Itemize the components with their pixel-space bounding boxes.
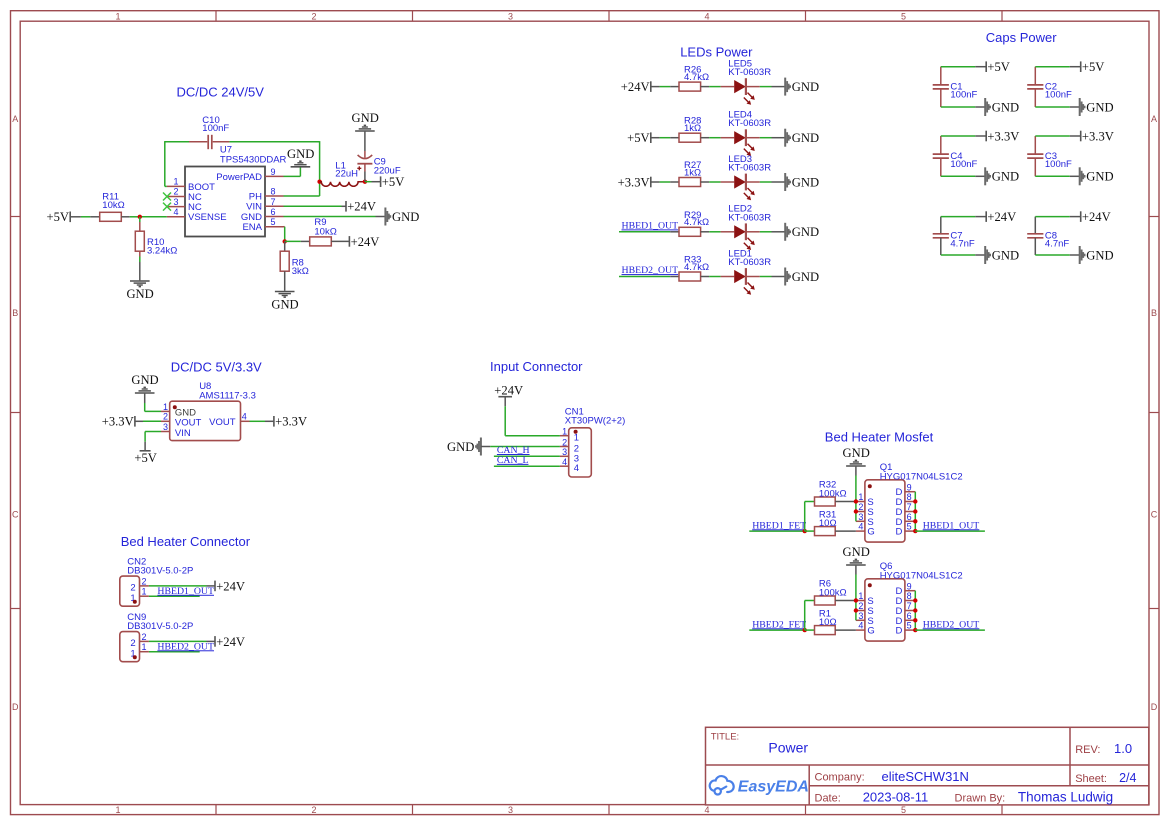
svg-text:C: C [1151, 510, 1158, 520]
no-connect pin 2 [163, 193, 171, 201]
wire CAN_L to CN1 pin 4 [494, 465, 560, 467]
inductor L1 22uH [320, 160, 365, 186]
power +3.3V for LED3 [618, 175, 651, 189]
LED LED2 KT-0603R [721, 204, 772, 250]
wire C4 to ground [941, 175, 985, 177]
svg-text:VSENSE: VSENSE [188, 212, 227, 223]
svg-text:100kΩ: 100kΩ [819, 587, 847, 598]
wire VIN pin 3 to +5V [145, 432, 161, 451]
svg-text:Sheet:: Sheet: [1075, 773, 1107, 785]
junction R10 top [138, 215, 142, 219]
net label HBED1_OUT [923, 520, 980, 531]
svg-text:2: 2 [858, 502, 863, 512]
junction L1 right [363, 180, 367, 184]
LED LED4 KT-0603R [721, 110, 772, 156]
ground flag for LED4 [785, 129, 819, 147]
power +24V at R9 [349, 235, 379, 249]
net label CAN_H [497, 445, 530, 456]
svg-text:5: 5 [901, 805, 906, 815]
svg-text:+24V: +24V [494, 384, 523, 398]
svg-text:Date:: Date: [815, 793, 841, 805]
svg-text:3: 3 [508, 11, 513, 21]
svg-text:GND: GND [792, 131, 819, 145]
svg-text:TPS5430DDAR: TPS5430DDAR [220, 155, 287, 166]
svg-text:3: 3 [173, 197, 178, 207]
svg-text:4: 4 [858, 621, 863, 631]
ground flag at C7 [985, 246, 1019, 264]
svg-text:eliteSCHW31N: eliteSCHW31N [882, 769, 969, 784]
power +5V at C1 [986, 60, 1010, 74]
resistor R28 1kΩ [679, 116, 721, 143]
svg-text:4.7nF: 4.7nF [1045, 239, 1069, 250]
svg-text:1: 1 [142, 642, 147, 652]
capacitor C10 [189, 115, 229, 149]
svg-text:GND: GND [447, 440, 474, 454]
svg-text:Input Connector: Input Connector [490, 359, 583, 374]
resistor R31 10 [805, 509, 856, 535]
svg-text:3.24kΩ: 3.24kΩ [147, 246, 177, 257]
svg-text:3kΩ: 3kΩ [292, 266, 309, 277]
svg-text:100nF: 100nF [950, 159, 977, 170]
svg-text:Bed Heater Connector: Bed Heater Connector [121, 534, 251, 549]
ground below R8 [271, 292, 298, 312]
svg-text:GND: GND [1086, 248, 1113, 262]
svg-text:4.7kΩ: 4.7kΩ [684, 262, 709, 273]
svg-text:5: 5 [907, 522, 912, 532]
ground flag at C3 [1080, 167, 1114, 185]
svg-text:Thomas Ludwig: Thomas Ludwig [1018, 790, 1113, 805]
svg-text:1: 1 [562, 427, 567, 437]
svg-text:8: 8 [907, 492, 912, 502]
svg-text:1: 1 [574, 433, 579, 444]
svg-text:4.7kΩ: 4.7kΩ [684, 72, 709, 83]
svg-text:GND: GND [992, 100, 1019, 114]
svg-text:2: 2 [562, 437, 567, 447]
net label HBED1_OUT [157, 586, 214, 597]
capacitor C9 220uF [357, 132, 401, 182]
svg-text:+24V: +24V [216, 635, 245, 649]
svg-text:GND: GND [352, 111, 379, 125]
wire C7 to +24V [941, 216, 986, 218]
svg-text:1: 1 [142, 587, 147, 597]
svg-text:Bed Heater Mosfet: Bed Heater Mosfet [825, 429, 934, 444]
svg-text:KT-0603R: KT-0603R [728, 67, 771, 78]
wire +24V to R26 [651, 86, 679, 88]
svg-text:D: D [12, 702, 19, 712]
svg-text:1: 1 [163, 402, 168, 412]
svg-text:1: 1 [858, 492, 863, 502]
net label HBED2_OUT [157, 641, 214, 652]
wire C2 to ground [1035, 106, 1079, 108]
svg-text:HBED2_FET: HBED2_FET [752, 619, 806, 630]
svg-text:100nF: 100nF [1045, 159, 1072, 170]
wire LED2 to ground [760, 231, 785, 233]
svg-text:B: B [1151, 308, 1157, 318]
wire CN9 pin 1 net HBED2_OUT [149, 651, 200, 653]
svg-text:6: 6 [907, 512, 912, 522]
resistor R27 1kΩ [679, 160, 721, 187]
wire +5V to R28 [651, 137, 679, 139]
svg-text:TITLE:: TITLE: [711, 732, 740, 743]
svg-text:+24V: +24V [347, 200, 376, 214]
wire HBED1_FET [749, 530, 804, 532]
svg-text:GND: GND [792, 80, 819, 94]
svg-text:4: 4 [704, 11, 709, 21]
power +5V input left [47, 210, 71, 224]
capacitor C7 4.7nF [933, 217, 975, 255]
svg-text:GND: GND [287, 147, 314, 161]
power +24V at C7 [986, 210, 1016, 224]
svg-text:10kΩ: 10kΩ [102, 200, 124, 211]
svg-text:+24V: +24V [351, 235, 380, 249]
svg-text:Drawn By:: Drawn By: [955, 793, 1006, 805]
svg-text:+5V: +5V [1082, 60, 1105, 74]
svg-text:2: 2 [311, 805, 316, 815]
svg-text:B: B [12, 308, 18, 318]
svg-text:4: 4 [704, 805, 709, 815]
net label HBED2_FET [752, 619, 806, 630]
svg-text:2: 2 [311, 11, 316, 21]
svg-text:7: 7 [907, 601, 912, 611]
junction HBED1_FET node [803, 529, 807, 533]
svg-text:G: G [867, 527, 874, 538]
power +5V for LED4 [627, 131, 651, 145]
ground flag for LED2 [785, 223, 819, 241]
svg-text:5: 5 [271, 217, 276, 227]
svg-text:9: 9 [907, 482, 912, 492]
svg-text:+3.3V: +3.3V [987, 129, 1019, 143]
svg-text:GND: GND [126, 287, 153, 301]
svg-text:DC/DC 5V/3.3V: DC/DC 5V/3.3V [171, 360, 262, 375]
svg-text:6: 6 [271, 207, 276, 217]
wire HBED2_OUT [915, 629, 985, 631]
svg-text:100nF: 100nF [950, 90, 977, 101]
junction drain Q6 y600 [913, 598, 917, 602]
svg-text:Power: Power [768, 740, 808, 756]
junction source Q1 pin1 [854, 499, 858, 503]
wire VIN to +24V [284, 205, 346, 207]
svg-text:9: 9 [271, 167, 276, 177]
junction drain Q6 y620 [913, 618, 917, 622]
wire C2 to +5V [1035, 66, 1080, 68]
svg-text:8: 8 [271, 187, 276, 197]
power +3.3V at C4 [986, 129, 1019, 143]
svg-text:+5V: +5V [627, 131, 650, 145]
ground flag for LED5 [785, 78, 819, 96]
LED LED3 KT-0603R [721, 154, 772, 200]
svg-text:C: C [12, 510, 19, 520]
svg-text:GND: GND [792, 225, 819, 239]
junction drain Q1 y511 [913, 509, 917, 513]
ground flag at C4 [985, 167, 1019, 185]
junction drain Q6 y610 [913, 608, 917, 612]
wire C3 to +3.3V [1035, 135, 1080, 137]
svg-text:10kΩ: 10kΩ [314, 226, 336, 237]
capacitor C3 100nF [1027, 136, 1072, 176]
ground above U8 [131, 373, 158, 393]
LED LED5 KT-0603R [721, 59, 772, 105]
svg-text:6: 6 [907, 611, 912, 621]
svg-text:1: 1 [115, 11, 120, 21]
svg-text:3: 3 [163, 422, 168, 432]
ground flag at pin 6 [385, 208, 419, 226]
svg-text:5: 5 [901, 11, 906, 21]
resistor R11 10k [100, 192, 140, 222]
resistor R1 10 [805, 608, 856, 634]
wire GND pin to GND flag [284, 216, 385, 218]
junction L1 left [317, 180, 321, 184]
svg-text:+5V: +5V [47, 210, 70, 224]
connector CN1 XT30PW(2+2) [560, 407, 625, 477]
capacitor C4 100nF [933, 136, 978, 176]
svg-text:VIN: VIN [175, 428, 191, 439]
resistor R8 3k [280, 241, 309, 290]
wire ground to Q1 source [855, 467, 857, 502]
svg-text:D: D [1151, 702, 1158, 712]
svg-text:1: 1 [115, 805, 120, 815]
svg-text:100nF: 100nF [202, 123, 229, 134]
svg-text:DC/DC 24V/5V: DC/DC 24V/5V [177, 85, 265, 100]
svg-text:A: A [12, 114, 18, 124]
resistor R32 100k [805, 480, 856, 506]
wire HBED2_FET [749, 629, 804, 631]
wire +3.3V to VOUT pin 2 [135, 420, 161, 422]
svg-text:HBED1_OUT: HBED1_OUT [923, 520, 980, 531]
svg-text:HBED1_OUT: HBED1_OUT [157, 586, 214, 597]
mosfet Q6 HYG017N04LS1C2 [856, 561, 963, 641]
svg-text:GND: GND [792, 175, 819, 189]
junction source Q6 pin2 [854, 608, 858, 612]
ground flag for LED1 [785, 268, 819, 286]
wire VOUT pin 4 to +3.3V [250, 420, 274, 422]
power +24V for LED5 [621, 80, 651, 94]
EasyEDA logo [710, 776, 809, 796]
power +24V at VIN [346, 200, 376, 214]
svg-text:GND: GND [271, 298, 298, 312]
svg-text:Company:: Company: [815, 772, 865, 784]
wire ENA down to junction [284, 227, 285, 242]
wire LED5 to ground [760, 86, 785, 88]
svg-text:100kΩ: 100kΩ [819, 488, 847, 499]
ground at PowerPAD [287, 147, 314, 167]
svg-text:2: 2 [858, 601, 863, 611]
power +5V below U8 [134, 451, 157, 465]
power +24V at CN9 [215, 635, 245, 649]
svg-text:KT-0603R: KT-0603R [728, 257, 771, 268]
ground flag at C1 [985, 98, 1019, 116]
svg-text:DB301V-5.0-2P: DB301V-5.0-2P [127, 621, 193, 632]
power +24V at C8 [1081, 210, 1111, 224]
svg-text:GND: GND [1086, 100, 1113, 114]
svg-text:+24V: +24V [987, 210, 1016, 224]
svg-text:3: 3 [508, 805, 513, 815]
capacitor C8 4.7nF [1027, 217, 1069, 255]
svg-text:7: 7 [271, 197, 276, 207]
svg-text:2/4: 2/4 [1119, 771, 1136, 785]
wire HBED2_OUT to R33 [619, 276, 679, 278]
ground flag for LED3 [785, 173, 819, 191]
ground above Q1 [843, 446, 870, 466]
resistor R10 3.24k [135, 217, 177, 280]
svg-text:5: 5 [907, 621, 912, 631]
net label HBED1_FET [752, 520, 806, 531]
svg-text:4.7kΩ: 4.7kΩ [684, 217, 709, 228]
svg-text:PowerPAD: PowerPAD [216, 172, 262, 183]
junction source Q6 pin1 [854, 598, 858, 602]
resistor R9 10k [285, 217, 349, 246]
no-connect pin 3 [163, 203, 171, 211]
wire CN9 pin 2 to +24V [149, 640, 215, 642]
svg-text:CAN_L: CAN_L [497, 455, 529, 466]
svg-text:VOUT: VOUT [209, 417, 236, 428]
svg-text:D: D [896, 626, 903, 637]
power +3.3V right of U8 [274, 415, 307, 429]
svg-text:1kΩ: 1kΩ [684, 123, 701, 134]
power +24V at CN2 [215, 579, 245, 593]
wire ground to CN1 pin 2 [481, 446, 560, 448]
svg-text:REV:: REV: [1075, 744, 1100, 756]
svg-text:GND: GND [992, 170, 1019, 184]
connector CN9 DB301V-5.0-2P [120, 612, 194, 661]
svg-text:KT-0603R: KT-0603R [728, 212, 771, 223]
svg-text:ENA: ENA [242, 222, 262, 233]
wire gate divider riser Q6 [804, 601, 806, 631]
wire LED3 to ground [760, 181, 785, 183]
net label HBED2_OUT [923, 619, 980, 630]
svg-text:HBED1_OUT: HBED1_OUT [622, 220, 679, 231]
net label HBED2_OUT [622, 265, 679, 276]
svg-text:3: 3 [858, 512, 863, 522]
wire +24V to CN1 pin 1 [505, 397, 560, 436]
junction drain Q1 y501 [913, 499, 917, 503]
wire drain bus Q1 [914, 492, 916, 531]
mosfet Q1 HYG017N04LS1C2 [856, 462, 963, 542]
svg-text:100nF: 100nF [1045, 90, 1072, 101]
svg-text:KT-0603R: KT-0603R [728, 118, 771, 129]
svg-text:2: 2 [173, 187, 178, 197]
capacitor C2 100nF [1027, 67, 1072, 107]
svg-text:7: 7 [907, 502, 912, 512]
resistor R33 4.7kΩ [679, 255, 721, 282]
svg-text:HBED2_OUT: HBED2_OUT [622, 265, 679, 276]
title block [706, 727, 1149, 805]
svg-text:G: G [867, 626, 874, 637]
svg-text:+5V: +5V [987, 60, 1010, 74]
svg-text:+24V: +24V [216, 579, 245, 593]
wire HBED1_OUT to R29 [619, 231, 679, 233]
ground flag left of CN1 [447, 438, 481, 456]
svg-text:1.0: 1.0 [1114, 741, 1132, 756]
LED LED1 KT-0603R [721, 248, 772, 294]
wire C4 to +3.3V [941, 135, 986, 137]
svg-text:1: 1 [173, 177, 178, 187]
ground flag at C2 [1080, 98, 1114, 116]
svg-text:1kΩ: 1kΩ [684, 167, 701, 178]
wire BOOT to C10 loop and PH riser [165, 141, 320, 196]
capacitor C1 100nF [933, 67, 978, 107]
wire ground to U8 pin 1 [145, 394, 161, 412]
junction drain Q6 y630 [913, 628, 917, 632]
svg-text:22uH: 22uH [335, 169, 358, 180]
svg-text:+24V: +24V [1082, 210, 1111, 224]
wire +3.3V to R27 [651, 181, 679, 183]
junction source Q1 pin2 [854, 509, 858, 513]
svg-text:EasyEDA: EasyEDA [738, 779, 809, 796]
net label CAN_L [497, 455, 529, 466]
wire CAN_H to CN1 pin 3 [494, 455, 560, 457]
junction drain Q1 y531 [913, 529, 917, 533]
junction drain Q1 y521 [913, 519, 917, 523]
svg-text:KT-0603R: KT-0603R [728, 163, 771, 174]
svg-text:+3.3V: +3.3V [618, 175, 650, 189]
svg-text:DB301V-5.0-2P: DB301V-5.0-2P [127, 565, 193, 576]
net label HBED1_OUT [622, 220, 679, 231]
wire ground to Q6 source [855, 566, 857, 601]
svg-text:D: D [896, 527, 903, 538]
svg-text:2023-08-11: 2023-08-11 [863, 790, 929, 805]
svg-text:GND: GND [392, 210, 419, 224]
wire CN2 pin 1 net HBED1_OUT [149, 595, 200, 597]
power +3.3V at C3 [1081, 129, 1114, 143]
svg-text:+3.3V: +3.3V [275, 415, 307, 429]
wire +5V to R11 [70, 216, 100, 218]
svg-text:+5V: +5V [382, 175, 405, 189]
svg-text:Caps Power: Caps Power [986, 30, 1057, 45]
svg-text:+24V: +24V [621, 80, 650, 94]
resistor R6 100k [805, 579, 856, 605]
power +24V above CN1 [494, 384, 523, 398]
svg-text:3: 3 [858, 611, 863, 621]
svg-text:HBED1_FET: HBED1_FET [752, 520, 806, 531]
svg-text:+3.3V: +3.3V [1082, 129, 1114, 143]
wire LED4 to ground [760, 137, 785, 139]
svg-text:4: 4 [562, 457, 567, 467]
svg-text:4: 4 [173, 207, 178, 217]
wire source bus Q1 [855, 502, 857, 522]
svg-text:8: 8 [907, 591, 912, 601]
ic U7 TPS5430DDAR [167, 145, 287, 237]
wire to VSENSE [140, 216, 167, 218]
resistor R26 4.7kΩ [679, 65, 721, 92]
wire C1 to +5V [941, 66, 986, 68]
svg-text:4: 4 [242, 412, 247, 422]
junction HBED2_FET node [803, 628, 807, 632]
wire C3 to ground [1035, 175, 1079, 177]
svg-text:HYG017N04LS1C2: HYG017N04LS1C2 [880, 570, 963, 581]
wire C7 to ground [941, 254, 985, 256]
power +3.3V left of U8 [102, 415, 135, 429]
svg-text:HBED2_OUT: HBED2_OUT [157, 641, 214, 652]
wire PowerPAD to ground [284, 167, 301, 176]
svg-text:GND: GND [792, 270, 819, 284]
wire L1 to +5V [365, 181, 380, 183]
wire C8 to ground [1035, 254, 1079, 256]
svg-text:+3.3V: +3.3V [102, 415, 134, 429]
svg-text:GND: GND [843, 545, 870, 559]
resistor R29 4.7kΩ [679, 210, 721, 237]
svg-text:LEDs Power: LEDs Power [680, 44, 753, 59]
power +5V output [381, 175, 405, 189]
svg-text:4.7nF: 4.7nF [950, 239, 974, 250]
svg-text:GND: GND [843, 446, 870, 460]
svg-text:HYG017N04LS1C2: HYG017N04LS1C2 [880, 471, 963, 482]
svg-text:2: 2 [142, 632, 147, 642]
ground below R10 [126, 281, 153, 301]
ground above Q6 [843, 545, 870, 565]
wire LED1 to ground [760, 276, 785, 278]
junction ENA node [283, 239, 287, 243]
svg-text:A: A [1151, 114, 1157, 124]
